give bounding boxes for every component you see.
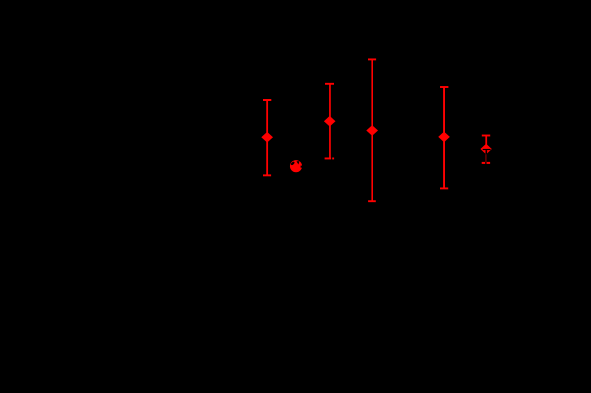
data point 5 marker (diamond): [438, 132, 450, 143]
data point 4 marker (diamond): [366, 125, 378, 136]
data point 3 marker (diamond): [324, 116, 336, 127]
data point 1 error bar: [263, 99, 271, 176]
data point 6 error bar (upper red part): [482, 135, 490, 150]
data point 2 marker (circle with black overlay): [290, 160, 303, 172]
black series line crossing point 3 lower cap: [331, 157, 332, 159]
data point 5 error bar: [440, 86, 448, 189]
data point 6 bottom cap (split by black line): [482, 162, 490, 164]
black series cap overlapping point 6 diamond: [483, 149, 491, 150]
data point 6 marker (diamond): [480, 144, 491, 155]
black series line through point 6 diamond: [486, 150, 488, 154]
data point 4 error bar: [368, 58, 376, 202]
data point 6 lower error line (red under black line = dark red): [485, 154, 487, 164]
data point 3 error bar: [325, 83, 335, 160]
data point 1 marker (diamond): [261, 132, 273, 143]
